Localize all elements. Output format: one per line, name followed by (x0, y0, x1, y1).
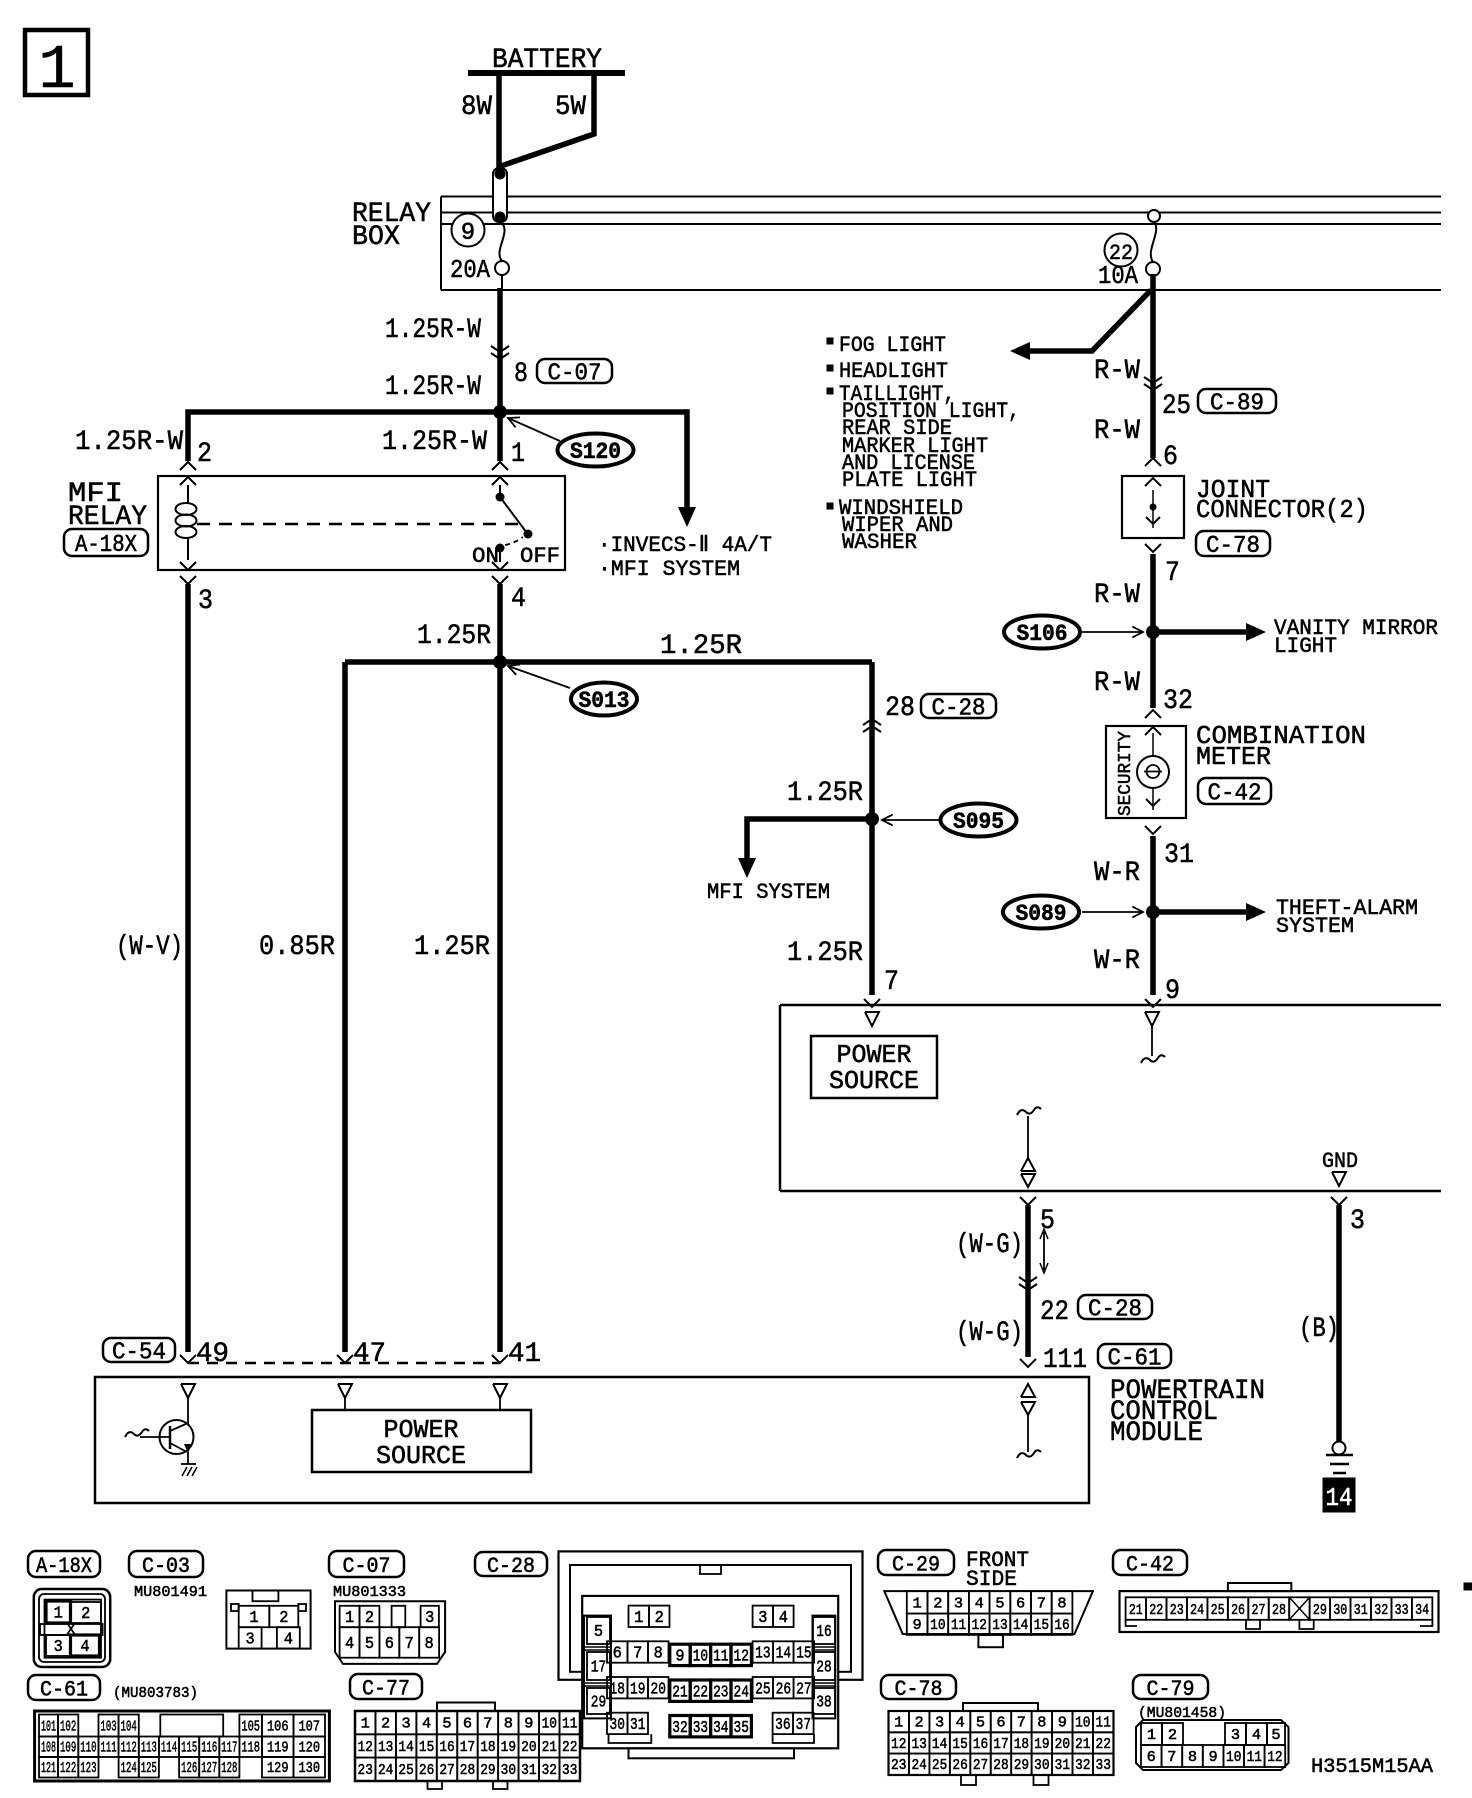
capsule C-78 bottom (881, 1675, 956, 1702)
fuse 9 circled number (452, 214, 485, 248)
svg-text:1: 1 (894, 1715, 903, 1732)
terminal pin 111 inside (1017, 1384, 1041, 1458)
svg-text:24: 24 (1190, 1602, 1204, 1619)
svg-text:17: 17 (460, 1739, 475, 1756)
label 3 (1350, 1206, 1365, 1237)
label REAR SIDE (842, 416, 952, 441)
svg-text:1.25R: 1.25R (660, 631, 742, 662)
svg-text:129: 129 (267, 1760, 289, 1777)
svg-text:30: 30 (610, 1716, 625, 1735)
svg-text:SOURCE: SOURCE (829, 1066, 919, 1096)
connector C-03 drawing (226, 1591, 310, 1650)
svg-text:15: 15 (952, 1736, 967, 1753)
wire B ground (1336, 1205, 1342, 1442)
svg-text:24: 24 (378, 1762, 393, 1779)
connector JOINT CONNECTOR box (1122, 476, 1184, 538)
svg-text:23: 23 (891, 1757, 906, 1774)
wire 1.25R to pin 7 (869, 662, 875, 995)
svg-text:2: 2 (81, 1605, 90, 1624)
label 49 (196, 1339, 229, 1370)
svg-text:5: 5 (976, 1715, 985, 1732)
svg-text:7: 7 (1167, 1749, 1176, 1766)
svg-text:4: 4 (345, 1635, 354, 1654)
label (B) (1299, 1314, 1339, 1345)
label POSITION LIGHT, (842, 399, 1020, 424)
wire 1.25R-W battery feed (497, 288, 503, 461)
svg-text:C-78: C-78 (895, 1677, 943, 1702)
svg-text:3: 3 (246, 1631, 255, 1650)
label THEFT-ALARM (1276, 896, 1418, 921)
wire W-G (1025, 1205, 1031, 1357)
svg-text:R-W: R-W (1094, 356, 1140, 387)
svg-text:47: 47 (353, 1339, 386, 1370)
svg-text:123: 123 (80, 1760, 96, 1777)
wire pin41 to power source (499, 1398, 501, 1410)
svg-text:31: 31 (1055, 1757, 1070, 1774)
svg-text:25: 25 (398, 1762, 413, 1779)
junction label S095 (882, 804, 1017, 837)
svg-text:9: 9 (461, 220, 475, 247)
wire S013 horizontal (345, 659, 872, 665)
svg-text:1: 1 (38, 35, 75, 106)
connector C-78 drawing (889, 1703, 1114, 1785)
svg-text:C-28: C-28 (1088, 1297, 1142, 1324)
svg-text:20: 20 (521, 1739, 536, 1756)
battery terminal bar (468, 70, 625, 76)
svg-text:29: 29 (1014, 1757, 1029, 1774)
label CONNECTOR(2) (1196, 495, 1368, 525)
svg-text:111: 111 (1043, 1345, 1087, 1376)
svg-text:5W: 5W (555, 92, 586, 123)
node S120 junction dot (493, 405, 507, 419)
svg-text:122: 122 (60, 1760, 76, 1777)
relay MFI RELAY label (68, 479, 147, 533)
svg-text:107: 107 (298, 1718, 320, 1735)
svg-text:30: 30 (1034, 1757, 1049, 1774)
svg-text:126: 126 (181, 1760, 197, 1777)
svg-text:1.25R-W: 1.25R-W (75, 427, 183, 458)
wire branch to lights arrow (1026, 290, 1151, 351)
svg-text:3: 3 (402, 1716, 411, 1733)
svg-text:MODULE: MODULE (1110, 1418, 1203, 1449)
svg-text:33: 33 (1096, 1757, 1111, 1774)
svg-text:7: 7 (1037, 1595, 1046, 1612)
label JOINT (1196, 475, 1270, 505)
svg-text:0.85R: 0.85R (259, 932, 335, 963)
svg-text:6: 6 (1147, 1749, 1156, 1766)
svg-text:3: 3 (425, 1609, 434, 1628)
svg-text:4: 4 (779, 1609, 788, 1628)
label COMBINATION (1196, 721, 1366, 751)
fuse 22 symbol (1146, 210, 1160, 276)
module PCM box (95, 1377, 1089, 1503)
svg-text:105: 105 (241, 1718, 260, 1735)
svg-text:3: 3 (935, 1715, 944, 1732)
box power source top (780, 1005, 1441, 1191)
svg-text:6: 6 (1016, 1595, 1025, 1612)
svg-text:29: 29 (591, 1694, 606, 1713)
label OFF (520, 544, 560, 569)
connector C-79 drawing (1136, 1720, 1289, 1770)
svg-text:25: 25 (932, 1757, 947, 1774)
label 5W (555, 92, 586, 123)
label TAILLIGHT, (839, 382, 955, 407)
scan mark right edge (1464, 1583, 1472, 1590)
label R-W 2 (1094, 416, 1140, 447)
label 1.25R-W lower (385, 372, 481, 403)
svg-text:102: 102 (60, 1718, 76, 1735)
terminal pin 111 end (1020, 1359, 1036, 1367)
svg-text:(W-V): (W-V) (116, 932, 183, 963)
label RELAY BOX (352, 199, 431, 253)
component POWER SOURCE box 1 (811, 1036, 937, 1098)
svg-text:11: 11 (1247, 1749, 1262, 1766)
svg-text:12: 12 (358, 1739, 373, 1756)
svg-text:BOX: BOX (352, 222, 400, 253)
label GND (1322, 1149, 1358, 1174)
svg-text:113: 113 (141, 1740, 157, 1757)
svg-text:3: 3 (198, 586, 213, 617)
label INVECS-II 4A/T (598, 533, 772, 558)
node S013 junction dot (493, 655, 507, 669)
capsule C-61 low (1098, 1344, 1171, 1373)
capsule C-61 bottom (28, 1675, 100, 1702)
terminal pin 7 joint (1145, 517, 1161, 552)
svg-text:·MFI SYSTEM: ·MFI SYSTEM (598, 557, 740, 582)
connector C-54 dashed line (188, 1362, 500, 1365)
capsule C-79 (1133, 1675, 1208, 1702)
junction label S013 (508, 664, 637, 715)
svg-text:S095: S095 (953, 809, 1004, 835)
svg-text:10: 10 (693, 1648, 708, 1667)
wire fuse22 to box bottom (1152, 276, 1154, 290)
svg-text:20A: 20A (450, 255, 490, 285)
svg-text:8: 8 (1057, 1595, 1066, 1612)
label 25 (1162, 391, 1191, 422)
svg-text:2: 2 (381, 1716, 390, 1733)
svg-text:C-42: C-42 (1208, 781, 1262, 808)
svg-text:3: 3 (54, 1638, 63, 1657)
label 8 (514, 359, 528, 390)
terminal pin 5 below box (1020, 1197, 1036, 1205)
svg-text:S013: S013 (579, 688, 630, 714)
wire W-V pin3 to PCM 49 (185, 584, 191, 1352)
svg-text:1: 1 (345, 1609, 354, 1628)
svg-text:30: 30 (1333, 1602, 1347, 1619)
svg-text:FOG LIGHT: FOG LIGHT (839, 333, 946, 358)
label (W-V) (116, 932, 183, 963)
terminal pin 9 (1145, 999, 1161, 1007)
page link 14 box (1323, 1478, 1355, 1513)
svg-text:20: 20 (651, 1680, 666, 1699)
bullet fog light (827, 338, 833, 344)
svg-text:103: 103 (101, 1718, 117, 1735)
svg-text:22: 22 (562, 1739, 577, 1756)
svg-text:32: 32 (1374, 1602, 1388, 1619)
svg-text:W-R: W-R (1094, 858, 1140, 889)
svg-text:5: 5 (365, 1635, 374, 1654)
svg-text:11: 11 (951, 1617, 966, 1634)
svg-text:9: 9 (1165, 976, 1180, 1007)
label LIGHT (1274, 634, 1337, 659)
component POWER SOURCE box 2 (312, 1410, 531, 1472)
svg-text:7: 7 (633, 1645, 642, 1664)
label pin 6 (1163, 442, 1178, 473)
svg-text:R-W: R-W (1094, 416, 1140, 447)
connector 28 C-28 pass-through (863, 719, 881, 732)
svg-text:8: 8 (1188, 1749, 1197, 1766)
svg-text:1.25R: 1.25R (787, 778, 863, 809)
svg-text:15: 15 (796, 1645, 811, 1664)
svg-text:C-28: C-28 (487, 1554, 535, 1579)
terminal pin 5 inside (1021, 1158, 1035, 1187)
svg-text:5: 5 (442, 1716, 451, 1733)
svg-text:12: 12 (891, 1736, 906, 1753)
svg-text:8: 8 (425, 1635, 434, 1654)
svg-text:6: 6 (1163, 442, 1178, 473)
svg-text:R-W: R-W (1094, 580, 1140, 611)
svg-text:A-18X: A-18X (75, 532, 137, 559)
svg-text:4: 4 (1252, 1727, 1261, 1744)
svg-text:125: 125 (141, 1760, 157, 1777)
svg-text:11: 11 (562, 1716, 577, 1733)
svg-text:114: 114 (161, 1740, 177, 1757)
svg-text:10: 10 (930, 1617, 945, 1634)
svg-text:1: 1 (511, 439, 525, 470)
svg-text:C-28: C-28 (932, 696, 986, 723)
svg-text:9: 9 (675, 1648, 684, 1667)
svg-text:18: 18 (480, 1739, 495, 1756)
svg-text:7: 7 (1165, 558, 1180, 589)
svg-text:11: 11 (1096, 1715, 1111, 1732)
svg-text:MU801491: MU801491 (134, 1584, 207, 1601)
svg-text:23: 23 (358, 1762, 373, 1779)
relay coil (176, 485, 197, 560)
svg-text:116: 116 (201, 1740, 217, 1757)
svg-text:12: 12 (972, 1617, 987, 1634)
svg-text:19: 19 (501, 1739, 516, 1756)
svg-text:MFI SYSTEM: MFI SYSTEM (707, 880, 830, 905)
label HEADLIGHT (839, 359, 948, 384)
svg-text:10: 10 (542, 1716, 557, 1733)
svg-text:9: 9 (1058, 1715, 1067, 1732)
label MU801491 (134, 1584, 207, 1601)
capsule C-29 (878, 1550, 954, 1577)
label MU801333 (333, 1584, 406, 1601)
svg-text:28: 28 (993, 1757, 1008, 1774)
svg-text:5: 5 (594, 1623, 603, 1642)
terminal pin 47 end (337, 1355, 353, 1363)
fuse 22 circled number (1105, 234, 1138, 267)
svg-text:17: 17 (591, 1659, 606, 1678)
svg-text:8: 8 (654, 1645, 663, 1664)
svg-text:6: 6 (463, 1716, 472, 1733)
label pin 9 (1165, 976, 1180, 1007)
svg-text:C-89: C-89 (1210, 391, 1264, 418)
connector A-18X drawing (34, 1589, 110, 1667)
svg-text:3: 3 (758, 1609, 767, 1628)
svg-text:25: 25 (1162, 391, 1191, 422)
svg-text:104: 104 (121, 1718, 137, 1735)
terminal pin 9 inside (1141, 1012, 1165, 1063)
svg-text:2: 2 (365, 1609, 374, 1628)
svg-text:17: 17 (993, 1736, 1008, 1753)
label FRONT SIDE (966, 1548, 1029, 1592)
svg-text:X: X (66, 1622, 75, 1639)
svg-text:130: 130 (298, 1760, 320, 1777)
svg-text:101: 101 (41, 1718, 56, 1735)
terminal pin 7 (864, 999, 880, 1007)
svg-text:S089: S089 (1016, 901, 1067, 927)
node S095 junction dot (865, 812, 879, 826)
svg-text:1.25R: 1.25R (417, 621, 491, 652)
svg-text:29: 29 (1313, 1602, 1327, 1619)
svg-text:C-54: C-54 (112, 1340, 166, 1367)
label 1.25R-W center (382, 427, 487, 458)
svg-text:W-R: W-R (1094, 946, 1140, 977)
label 1.25R below relay (417, 621, 491, 652)
svg-text:4: 4 (284, 1631, 293, 1650)
connector 25 C-89 pass-through (1144, 377, 1162, 390)
svg-text:1.25R-W: 1.25R-W (382, 427, 487, 458)
svg-text:1.25R-W: 1.25R-W (385, 315, 481, 346)
connector C-29 drawing (884, 1591, 1093, 1647)
svg-text:27: 27 (973, 1757, 988, 1774)
relay pin 1 terminals (492, 462, 508, 485)
label ON (472, 544, 499, 569)
svg-text:32: 32 (542, 1762, 557, 1779)
svg-text:4: 4 (975, 1595, 984, 1612)
transistor in PCM (125, 1398, 194, 1454)
meter COMBINATION METER box (1106, 726, 1186, 818)
battery inline connector overlay (493, 168, 507, 223)
svg-text:1: 1 (249, 1609, 258, 1628)
node S106 junction dot (1146, 625, 1160, 639)
svg-text:25: 25 (755, 1680, 770, 1699)
svg-text:C-07: C-07 (343, 1554, 391, 1579)
label FOG LIGHT (839, 333, 946, 358)
svg-text:115: 115 (181, 1740, 197, 1757)
svg-text:12: 12 (734, 1648, 749, 1667)
svg-text:2: 2 (197, 439, 212, 470)
wire 1.25R pin4 to PCM 41 (497, 584, 503, 1352)
svg-text:·INVECS-Ⅱ 4A/T: ·INVECS-Ⅱ 4A/T (598, 533, 772, 558)
relay box outline (441, 197, 1441, 291)
svg-text:106: 106 (267, 1718, 289, 1735)
label MFI SYSTEM (707, 880, 830, 905)
label SYSTEM (1276, 914, 1354, 939)
svg-text:2: 2 (655, 1609, 664, 1628)
wire main horizontal to INVECS branch (188, 412, 687, 508)
svg-text:HEADLIGHT: HEADLIGHT (839, 359, 948, 384)
svg-text:34: 34 (1415, 1602, 1429, 1619)
label R-W 4 (1094, 668, 1140, 699)
wire W-R meter down (1150, 836, 1156, 995)
svg-text:3: 3 (954, 1595, 963, 1612)
terminal GND inside (1332, 1172, 1346, 1186)
label SECURITY vertical (1116, 731, 1136, 816)
label 1.25R-W left (75, 427, 183, 458)
svg-text:9: 9 (1209, 1749, 1218, 1766)
svg-text:28: 28 (816, 1659, 831, 1678)
label pin 3 (198, 586, 213, 617)
label 22 (1040, 1297, 1069, 1328)
svg-text:16: 16 (816, 1623, 831, 1642)
svg-text:C-42: C-42 (1126, 1552, 1174, 1577)
fuse 9 symbol (495, 222, 509, 275)
svg-text:23: 23 (713, 1683, 728, 1702)
terminal pin 49 end (180, 1355, 196, 1363)
label MODULE (1110, 1418, 1203, 1449)
svg-text:1.25R: 1.25R (787, 938, 863, 969)
svg-text:4: 4 (422, 1716, 431, 1733)
svg-text:32: 32 (672, 1719, 687, 1738)
capsule C-54 (103, 1338, 175, 1367)
svg-text:32: 32 (1075, 1757, 1090, 1774)
label R-W 3 (1094, 580, 1140, 611)
svg-text:2: 2 (279, 1609, 288, 1628)
svg-text:30: 30 (501, 1762, 516, 1779)
svg-text:38: 38 (816, 1694, 831, 1713)
wire 5 internal (1017, 1107, 1041, 1158)
svg-text:22: 22 (693, 1683, 708, 1702)
svg-text:14: 14 (776, 1645, 791, 1664)
svg-text:14: 14 (398, 1739, 413, 1756)
label 28 (885, 693, 915, 724)
svg-text:13: 13 (911, 1736, 926, 1753)
arrow to lights (1010, 342, 1030, 360)
label 20A (450, 255, 490, 285)
terminal pin 49 inside (181, 1384, 195, 1398)
capsule C-07 bottom (329, 1551, 404, 1579)
svg-text:9: 9 (913, 1617, 922, 1634)
svg-text:21: 21 (542, 1739, 557, 1756)
terminal pin 3 below box (1331, 1197, 1347, 1205)
relay actuation dashed line (197, 523, 518, 526)
label MU801458 (1138, 1705, 1226, 1722)
battery BATTERY label (492, 45, 602, 76)
label 1.25R above power source (787, 938, 863, 969)
svg-text:36: 36 (775, 1716, 790, 1735)
label WIPER AND (842, 513, 953, 538)
svg-text:41: 41 (508, 1339, 541, 1370)
capsule C-28 bottom (475, 1552, 547, 1579)
svg-text:124: 124 (121, 1760, 137, 1777)
junction label S089 (1003, 896, 1143, 929)
svg-text:C-29: C-29 (892, 1552, 940, 1577)
label 1.25R above S095 (787, 778, 863, 809)
label 0.85R (259, 932, 335, 963)
svg-text:C-03: C-03 (142, 1554, 190, 1579)
svg-text:37: 37 (796, 1716, 811, 1735)
label (W-G) 2 (956, 1318, 1023, 1349)
svg-text:GND: GND (1322, 1149, 1358, 1174)
capsule C-77 (350, 1674, 422, 1701)
svg-text:3: 3 (1350, 1206, 1365, 1237)
svg-text:22: 22 (1040, 1297, 1069, 1328)
arrow to MFI SYSTEM (738, 858, 756, 878)
label 1.25R right of S013 (660, 631, 742, 662)
wire arrow to theft alarm (1158, 903, 1266, 921)
svg-text:C-77: C-77 (362, 1676, 410, 1701)
connector 8 C-07 pass-through (491, 346, 509, 359)
svg-text:METER: METER (1196, 742, 1271, 772)
label PLATE LIGHT (842, 468, 977, 493)
svg-text:29: 29 (480, 1762, 495, 1779)
capsule C-28 low (1078, 1295, 1152, 1324)
label MFI SYSTEM branch (598, 557, 740, 582)
svg-text:SIDE: SIDE (966, 1567, 1017, 1592)
